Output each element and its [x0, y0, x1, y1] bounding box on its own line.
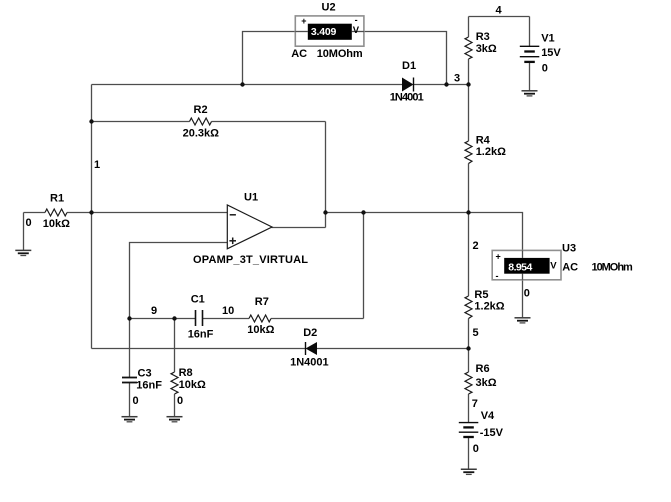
svg-text:R8: R8: [179, 367, 193, 379]
wire opamp plus input: [130, 243, 228, 378]
wire R1 right lead to opamp: [67, 212, 228, 214]
svg-text:+: +: [496, 252, 501, 262]
node 9 right junction: [172, 316, 176, 320]
svg-text:D1: D1: [402, 60, 416, 72]
resistor R5: [465, 296, 472, 319]
svg-text:3.409: 3.409: [311, 26, 337, 38]
svg-text:-15V: -15V: [480, 427, 504, 439]
wire output row to U3: [326, 213, 523, 251]
svg-text:R6: R6: [476, 363, 490, 375]
svg-text:R2: R2: [194, 104, 208, 116]
ground U3: [515, 318, 531, 323]
wire right column R3 top: [468, 17, 470, 38]
wire vertical output to C1 row: [363, 213, 365, 319]
svg-text:3kΩ: 3kΩ: [476, 377, 497, 389]
svg-text:R1: R1: [50, 192, 64, 204]
voltmeter U2: [295, 16, 364, 46]
wire top D1 row left segment: [92, 84, 403, 86]
svg-text:V4: V4: [481, 410, 495, 422]
node U2 left junction: [240, 82, 244, 86]
wire C3 ground stub: [129, 383, 131, 417]
node U2 right junction: [444, 82, 448, 86]
svg-text:0: 0: [524, 288, 530, 300]
svg-text:3kΩ: 3kΩ: [476, 43, 497, 55]
svg-text:2: 2: [473, 240, 479, 252]
svg-text:1.2kΩ: 1.2kΩ: [476, 146, 506, 158]
wire U3 ground stub: [522, 280, 524, 318]
diode D2: [306, 342, 318, 355]
svg-text:-: -: [355, 15, 358, 25]
wire R8 ground stub: [174, 394, 176, 417]
wire node2 to R5: [468, 213, 470, 297]
svg-text:10: 10: [222, 305, 234, 317]
svg-text:AC: AC: [291, 48, 307, 60]
svg-text:8.954: 8.954: [508, 261, 532, 273]
svg-text:16nF: 16nF: [188, 329, 214, 341]
svg-text:+: +: [301, 16, 306, 26]
svg-text:0: 0: [542, 63, 548, 75]
svg-text:10kΩ: 10kΩ: [43, 218, 70, 230]
svg-text:1N4001: 1N4001: [390, 92, 424, 104]
resistor R3: [465, 37, 472, 59]
resistor R7: [249, 315, 271, 322]
battery V4: [459, 422, 479, 424]
wire node4 row: [469, 16, 530, 18]
diode D1: [402, 78, 414, 92]
svg-text:5: 5: [473, 327, 479, 339]
svg-text:U3: U3: [562, 243, 576, 255]
svg-text:AC: AC: [562, 262, 578, 274]
svg-text:0: 0: [473, 443, 479, 455]
ground V1: [522, 91, 538, 96]
wire D2 row right: [317, 348, 469, 350]
svg-text:10kΩ: 10kΩ: [179, 379, 206, 391]
svg-text:1N4001: 1N4001: [290, 356, 329, 368]
ground V4: [461, 469, 477, 474]
svg-text:D2: D2: [303, 327, 317, 339]
battery V1: [520, 45, 540, 47]
wire R1 left lead: [24, 212, 46, 214]
wire D2 row left: [92, 348, 306, 350]
svg-text:15V: 15V: [541, 47, 561, 59]
node R2 left junction: [89, 119, 93, 123]
wire feedback vertical: [325, 122, 327, 228]
wire V4 ground stub: [468, 437, 470, 469]
node R1 junction: [89, 210, 93, 214]
wire V1 ground stub: [529, 62, 531, 91]
wire R6 to V4: [468, 394, 470, 423]
wire V1 top lead: [529, 17, 531, 47]
voltmeter U3: [492, 250, 561, 279]
resistor R2: [190, 118, 212, 125]
svg-text:0: 0: [133, 395, 139, 407]
resistor R4: [465, 141, 472, 164]
svg-text:U2: U2: [322, 2, 336, 14]
ground C3: [122, 417, 138, 422]
wire U2 right lead: [364, 32, 447, 85]
node 5: [466, 346, 470, 350]
svg-text:V1: V1: [541, 33, 554, 45]
node feedback junction: [323, 210, 327, 214]
wire top D1 row right segment: [414, 84, 469, 86]
wire R7 right: [271, 318, 364, 320]
svg-text:9: 9: [151, 305, 157, 317]
svg-text:10kΩ: 10kΩ: [247, 324, 274, 336]
svg-text:R5: R5: [474, 289, 488, 301]
wire U2 left lead: [243, 32, 296, 85]
svg-text:C3: C3: [138, 367, 152, 379]
wire R4 to node2: [468, 164, 470, 213]
wire R2 row right: [212, 121, 326, 123]
wire opamp output: [272, 227, 326, 229]
resistor R1: [45, 209, 67, 216]
svg-text:R3: R3: [476, 31, 490, 43]
svg-text:10MOhm: 10MOhm: [317, 48, 363, 60]
svg-text:3: 3: [454, 73, 460, 85]
svg-text:R7: R7: [255, 296, 269, 308]
wire C1 to R7: [203, 318, 250, 320]
node 9 left junction: [127, 316, 131, 320]
capacitor C3: [122, 377, 137, 379]
ground R1: [15, 250, 31, 255]
wire right column R3 to node3: [468, 59, 470, 85]
svg-text:4: 4: [496, 5, 503, 17]
svg-text:1: 1: [94, 159, 100, 171]
node 3: [466, 82, 470, 86]
svg-text:-: -: [496, 271, 499, 281]
wire node5 to R6: [468, 349, 470, 373]
node output-C1 junction: [361, 210, 365, 214]
svg-text:7: 7: [472, 398, 478, 410]
op-amp U1: [227, 205, 272, 249]
wire R8 column top: [174, 319, 176, 373]
svg-text:16nF: 16nF: [136, 379, 162, 391]
svg-text:OPAMP_3T_VIRTUAL: OPAMP_3T_VIRTUAL: [193, 254, 308, 266]
svg-text:0: 0: [177, 395, 183, 407]
ground R8: [167, 417, 183, 422]
svg-text:V: V: [353, 25, 360, 36]
capacitor C1: [195, 310, 197, 326]
resistor R8: [171, 372, 178, 394]
wire R1 ground stub: [23, 213, 25, 251]
node 2 junction: [466, 210, 470, 214]
svg-text:C1: C1: [191, 294, 205, 306]
svg-text:10MOhm: 10MOhm: [592, 262, 634, 274]
svg-text:V: V: [550, 260, 557, 271]
wire C1 row left: [130, 318, 196, 320]
svg-text:0: 0: [26, 217, 32, 229]
wire left vertical node1: [91, 85, 93, 349]
svg-text:1.2kΩ: 1.2kΩ: [474, 301, 504, 313]
wire node3 to R4: [468, 85, 470, 142]
resistor R6: [465, 372, 472, 394]
wire R5 to node5: [468, 319, 470, 349]
svg-text:20.3kΩ: 20.3kΩ: [183, 128, 220, 140]
svg-text:U1: U1: [244, 191, 258, 203]
wire R2 row left: [92, 121, 190, 123]
